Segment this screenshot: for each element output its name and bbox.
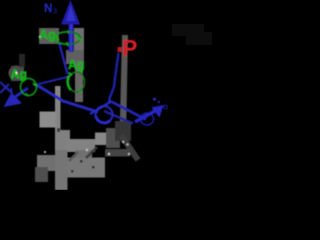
bond P to node (vertical blue) <box>109 53 119 104</box>
gray bond column behind atom Ag2 <box>74 28 84 60</box>
moment arrow on Ag1 (up) : shaft <box>68 20 73 52</box>
dark speck on slab 3 <box>71 170 74 173</box>
node atom N (blue ellipsoid) <box>96 106 113 123</box>
bond Ag3 to Ag2 <box>35 77 69 86</box>
atom4 ellipsoid (blue) <box>141 113 154 125</box>
moment arrow on Ag1 : head core <box>66 5 76 21</box>
gray bar upper right <box>106 128 120 148</box>
gray lower-left block <box>37 155 55 171</box>
svg-text:3: 3 <box>53 7 57 16</box>
gray dark diagonal bond <box>115 121 131 141</box>
svg-text:N: N <box>44 3 52 15</box>
gray lower-left block 2 <box>35 167 48 182</box>
gray big slab bottom <box>68 158 106 178</box>
svg-text:Ag: Ag <box>11 68 28 82</box>
atom Ag1 ellipsoid (green) <box>55 32 68 44</box>
gray block left of bar <box>40 112 56 128</box>
gray bar below Ag2 <box>55 86 61 150</box>
gray stair block <box>56 130 70 151</box>
small blue ring right of atom4 <box>164 105 168 109</box>
svg-text:Ag: Ag <box>68 58 85 72</box>
moment arrow on Ag1 : head <box>61 0 80 25</box>
gray horizontal bar <box>66 139 95 152</box>
atom P dot (red) <box>118 47 122 52</box>
svg-text:Ag: Ag <box>39 28 56 42</box>
moment arrow on atom4 : shaft <box>135 111 155 122</box>
dark speck on slab 2 <box>92 166 95 169</box>
gray dim piece right of slab <box>105 149 130 157</box>
Ag3 ticks <box>21 79 24 82</box>
small blue label near atom4 <box>153 98 156 101</box>
white atom dot 1 <box>86 149 88 151</box>
bond Ag1 to Ag2 (blue) <box>60 44 68 74</box>
moment arrow on Ag1 : shaft core <box>70 21 72 51</box>
dark speck on bar <box>57 128 60 132</box>
dark speck on slab 1 <box>80 160 83 163</box>
gray bond column at P <box>120 35 129 140</box>
small arrow at left edge <box>0 82 12 93</box>
gray sphere behind label Ag1 <box>39 28 59 44</box>
gray slab top pieces <box>75 150 92 158</box>
svg-text:P: P <box>122 35 137 61</box>
dim wisp 2 <box>86 147 97 158</box>
Ag1 ellipsoid ticks <box>55 36 59 41</box>
gray wide bar at bottom edge <box>55 150 68 190</box>
white atom dot 5 <box>44 151 46 153</box>
moment arrow on Ag3 (down-left) : shaft <box>15 88 28 97</box>
moment arrow on atom4 : head <box>152 105 164 118</box>
bond node to atom4 lower <box>104 111 133 124</box>
Ag2 ticks <box>69 73 72 76</box>
gray sphere behind label Ag3 <box>9 66 24 81</box>
bond node to arrow2 chain upper <box>112 102 146 120</box>
atom Ag2 ellipsoid (green) <box>69 72 85 92</box>
dim wisp 1 <box>69 152 78 161</box>
moment arrow on Ag3 : head <box>4 93 23 108</box>
white atom dot 2 <box>108 153 110 155</box>
white speck at Ag3 <box>15 72 17 74</box>
atom Ag3 ellipsoid (green) <box>21 79 37 96</box>
white atom dot 3 <box>128 153 130 155</box>
bond Ag3 to node N (long blue diagonal) <box>36 85 98 113</box>
faint background molecule top right <box>172 24 204 36</box>
gray bar right <box>95 133 108 146</box>
white speck at Ag1 <box>39 36 41 38</box>
